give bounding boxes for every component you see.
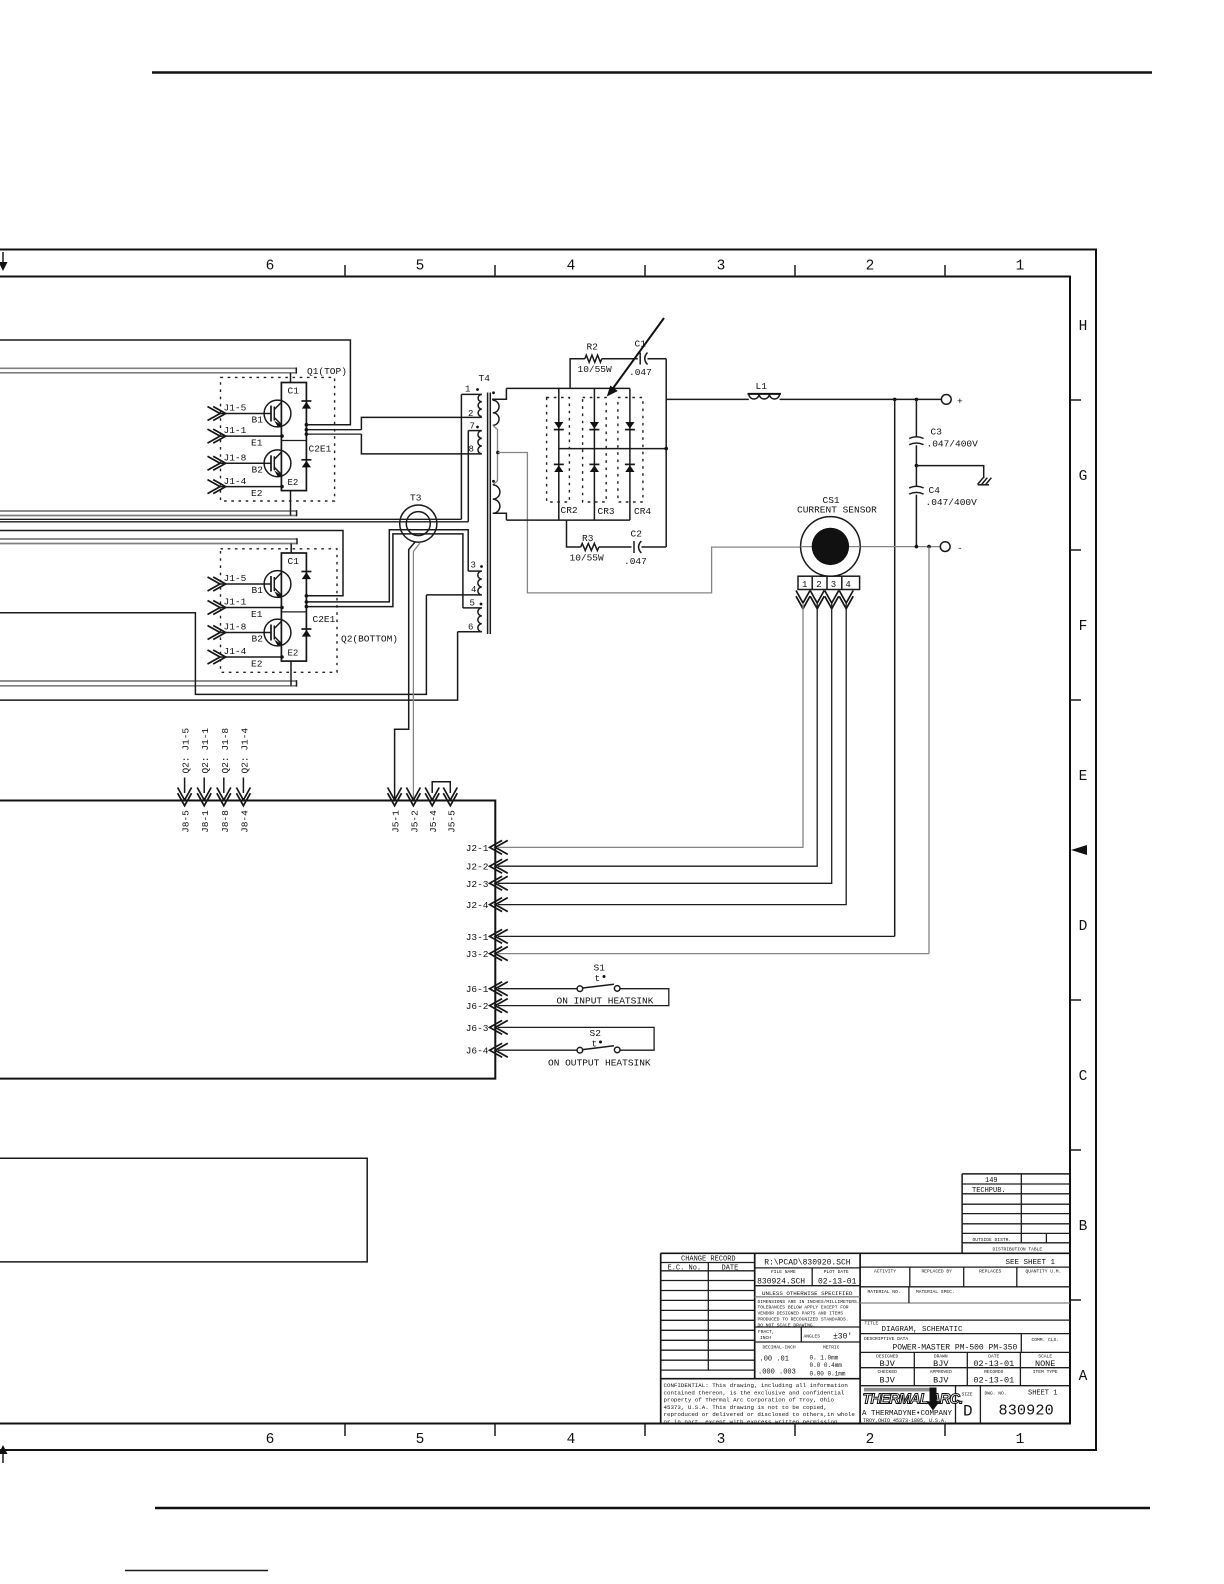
svg-text:6: 6 (266, 259, 275, 275)
wire T3 secondary lead to J5-2 (413, 543, 420, 800)
junction + rail C3 tap (915, 398, 919, 402)
wire T3 secondary lead to J5-1 (395, 542, 416, 800)
svg-text:E.C. No.: E.C. No. (668, 1264, 702, 1272)
diode IGBT module Q2 upper anti-parallel (301, 571, 311, 573)
footer short line (125, 1570, 268, 1572)
connector pin J8-4 with net label Q2: J1-4 (236, 728, 250, 833)
junction Q1 E2 (280, 485, 284, 489)
designed row (860, 1352, 1070, 1385)
svg-text:DATE: DATE (722, 1264, 739, 1272)
svg-text:5: 5 (470, 599, 475, 609)
wire secondary center tap to negative rail (498, 453, 801, 593)
auxiliary block outline (cut at left) (0, 1158, 367, 1262)
svg-text:SEE SHEET 1: SEE SHEET 1 (1006, 1259, 1056, 1267)
svg-text:J5-5: J5-5 (446, 810, 457, 833)
svg-text:02-13-01: 02-13-01 (818, 1277, 857, 1286)
connector pin J6-2 (466, 999, 508, 1013)
svg-text:C2E1: C2E1 (309, 444, 332, 455)
svg-text:4: 4 (471, 585, 476, 595)
svg-text:B2: B2 (252, 634, 264, 645)
junction C4 negative rail (915, 545, 919, 549)
connector pin J2-2 (466, 859, 508, 873)
diode module CR3 (583, 388, 607, 520)
svg-text:OUTSIDE DISTR.: OUTSIDE DISTR. (973, 1237, 1012, 1243)
svg-text:5: 5 (416, 259, 425, 275)
svg-text:reproduced or delivered or dis: reproduced or delivered or disclosed to … (664, 1411, 856, 1418)
junction Q1 C2E1 exits (305, 423, 309, 436)
svg-text:MATERIAL SPEC.: MATERIAL SPEC. (916, 1289, 955, 1295)
svg-text:ACTIVITY: ACTIVITY (874, 1269, 896, 1275)
svg-text:METRIC: METRIC (823, 1345, 840, 1351)
svg-text:0.00 0.1mm: 0.00 0.1mm (810, 1371, 846, 1378)
svg-text:C1: C1 (288, 386, 300, 397)
svg-text:BJV: BJV (933, 1359, 949, 1369)
svg-text:CURRENT SENSOR: CURRENT SENSOR (797, 505, 877, 516)
svg-text:J6-1: J6-1 (466, 984, 489, 995)
svg-text:±30′: ±30′ (833, 1333, 852, 1342)
svg-text:J1-4: J1-4 (224, 646, 247, 657)
T4 secondary upper (493, 388, 507, 452)
svg-text:DIAGRAM, SCHEMATIC: DIAGRAM, SCHEMATIC (882, 1326, 964, 1334)
svg-text:2: 2 (816, 580, 821, 590)
junction J3-2 tap (927, 545, 931, 549)
wire J3-2 sense (928, 547, 930, 954)
transistor IGBT module Q2 upper half (264, 571, 291, 598)
junction T4 secondary center tap (496, 451, 500, 455)
CS1 terminal strip 1 2 3 4 (798, 576, 860, 590)
svg-text:QUANTITY U.M.: QUANTITY U.M. (1025, 1269, 1061, 1275)
svg-text:or in part, except with expres: or in part, except with express written … (664, 1418, 841, 1425)
wire Q1 C1 bus pair from left edge (0, 368, 296, 374)
svg-text:Q2: J1-5: Q2: J1-5 (181, 728, 192, 774)
svg-text:Q1(TOP): Q1(TOP) (307, 366, 347, 377)
IGBT module Q1 module body (281, 383, 306, 491)
svg-text:TOLERANCES BELOW APPLY EXCEPT: TOLERANCES BELOW APPLY EXCEPT FOR (758, 1305, 849, 1311)
svg-text:REPLACES: REPLACES (979, 1269, 1001, 1275)
current transformer T3 (400, 505, 437, 542)
IGBT module Q2 module body (281, 553, 306, 661)
wire Q2 C1 stub (290, 544, 292, 554)
page edge arrow bottom-left (0, 1445, 8, 1463)
transistor IGBT module Q1 upper half (264, 400, 291, 427)
drawing outer border (0, 250, 1096, 1451)
transformer T4 core (488, 393, 491, 635)
wire Q1 C2E1 feedback to left edge (0, 340, 350, 425)
wire CS1 pin1 to J2-1 (498, 603, 803, 847)
svg-text:J6-2: J6-2 (466, 1001, 489, 1012)
junction Q1 E1 (280, 434, 284, 438)
ground symbol (978, 478, 992, 485)
svg-text:J8-5: J8-5 (181, 810, 192, 833)
svg-text:ANGLES: ANGLES (804, 1333, 821, 1339)
wire T4 pin1 down to T3 (460, 394, 462, 519)
svg-text:FILE NAME: FILE NAME (771, 1269, 796, 1275)
svg-text:E2: E2 (251, 659, 263, 670)
T4 winding 3-4 (426, 561, 481, 596)
svg-text:J2-3: J2-3 (466, 879, 489, 890)
svg-text:E: E (1079, 769, 1088, 785)
svg-text:CR3: CR3 (598, 506, 615, 517)
svg-text:RECORDS: RECORDS (984, 1369, 1004, 1375)
svg-text:SIZE: SIZE (962, 1391, 973, 1397)
svg-text:3: 3 (717, 1432, 726, 1448)
diode module CR2 (547, 388, 570, 520)
svg-text:830920: 830920 (999, 1402, 1054, 1420)
bus bar Q1 to T4 windings 1-2/7-8 (361, 417, 481, 454)
svg-text:C3: C3 (931, 427, 943, 438)
svg-text:10/55W: 10/55W (570, 553, 605, 564)
svg-text:02-13-01: 02-13-01 (973, 1376, 1014, 1386)
connector pin J2-1 (466, 840, 508, 854)
svg-text:149: 149 (985, 1177, 998, 1185)
svg-text:2: 2 (866, 1432, 875, 1448)
border zone letters right (1079, 319, 1088, 1385)
capacitor C1 (640, 353, 647, 365)
material row (860, 1287, 1070, 1303)
connector pin J6-3 (466, 1020, 508, 1034)
svg-text:D: D (1079, 919, 1088, 935)
svg-text:DESCRIPTIVE DATA: DESCRIPTIVE DATA (864, 1336, 908, 1342)
wire S1 loop back to J6-2 (498, 989, 669, 1006)
svg-text:C: C (1079, 1069, 1088, 1085)
wire rectifier output right riser (665, 359, 667, 547)
resistor R2 (585, 355, 602, 362)
junction Q2 E1 (280, 606, 284, 610)
connector pin J5-5 (443, 788, 457, 834)
svg-text:.047: .047 (624, 556, 647, 567)
svg-text:J5-1: J5-1 (391, 810, 402, 833)
diode IGBT module Q1 lower anti-parallel (301, 459, 311, 461)
wire jumper J5-4 to J5-5 (432, 782, 450, 793)
svg-text:COMM. CLS.: COMM. CLS. (1032, 1337, 1060, 1343)
svg-text:E1: E1 (251, 609, 263, 620)
size cell (962, 1391, 973, 1420)
connector pin J1-5 (Q2) (208, 573, 265, 591)
connector pin J1-1 (Q2) (208, 597, 282, 615)
border zone ticks top (345, 265, 945, 277)
svg-text:MATERIAL NO.: MATERIAL NO. (868, 1289, 901, 1295)
wire S2 to J6-4 (498, 1049, 577, 1051)
svg-text:1: 1 (465, 385, 470, 395)
svg-text:4: 4 (567, 1432, 576, 1448)
svg-text:+: + (957, 396, 963, 407)
wire J3-1 sense (894, 399, 896, 936)
svg-text:3: 3 (471, 561, 476, 571)
svg-text:D: D (963, 1403, 973, 1421)
connector pin J1-5 (Q1) (208, 403, 265, 421)
svg-text:CONFIDENTIAL: This drawing, in: CONFIDENTIAL: This drawing, including al… (664, 1382, 848, 1389)
svg-text:J2-4: J2-4 (466, 900, 489, 911)
junction Q2 E2 (280, 655, 284, 659)
T4 winding 5-6 (458, 599, 482, 633)
connector pin J8-1 with net label Q2: J1-1 (197, 728, 211, 833)
change record table (661, 1256, 860, 1379)
PCB board outline (0, 801, 495, 1079)
capacitor C4 (909, 466, 923, 547)
svg-text:C4: C4 (929, 485, 941, 496)
svg-text:DWG. NO.: DWG. NO. (985, 1391, 1007, 1397)
svg-text:CHANGE RECORD: CHANGE RECORD (681, 1256, 736, 1264)
svg-text:1: 1 (802, 580, 807, 590)
wire T4 pin1 through T3 to left edge (0, 518, 461, 520)
T4 winding 1-2 (461, 385, 481, 420)
file name cell (755, 1259, 860, 1287)
wire left edge to T4 terminal 6 (0, 632, 458, 700)
svg-text:J8-1: J8-1 (200, 810, 211, 833)
svg-text:-: - (957, 543, 963, 554)
connector pin J8-8 with net label Q2: J1-8 (217, 728, 231, 833)
svg-text:.047/400V: .047/400V (927, 439, 979, 450)
wire left edge to T4 terminal 4 (0, 595, 426, 695)
diode IGBT module Q1 upper anti-parallel (301, 400, 311, 402)
svg-text:J1-5: J1-5 (224, 403, 247, 414)
confidential note (664, 1382, 856, 1425)
connector pin J5-2 (406, 788, 420, 834)
svg-text:0.0 0.4mm: 0.0 0.4mm (810, 1362, 843, 1369)
svg-text:C2: C2 (631, 529, 643, 540)
svg-text:C1: C1 (288, 556, 300, 567)
svg-text:B2: B2 (252, 465, 264, 476)
svg-text:8: 8 (469, 445, 474, 455)
connector pin J1-4 (Q1) (208, 476, 282, 494)
svg-text:BJV: BJV (880, 1376, 896, 1386)
svg-text:L1: L1 (756, 381, 768, 392)
svg-text:3: 3 (831, 580, 836, 590)
svg-text:DECIMAL-INCH: DECIMAL-INCH (763, 1345, 796, 1351)
svg-text:J5-4: J5-4 (428, 810, 439, 833)
wire Q1 E2 stub (290, 491, 292, 516)
wire negative rail to terminal (860, 546, 941, 548)
svg-text:DIMENSIONS ARE IN INCHES/MILLI: DIMENSIONS ARE IN INCHES/MILLIMETERS. (758, 1299, 860, 1305)
svg-text:E2: E2 (288, 478, 299, 488)
svg-text:FRACT,: FRACT, (758, 1329, 775, 1335)
svg-text:A: A (1079, 1369, 1088, 1385)
svg-text:B1: B1 (252, 585, 264, 596)
svg-text:S2: S2 (590, 1028, 602, 1039)
svg-text:DISTRIBUTION TABLE: DISTRIBUTION TABLE (993, 1246, 1043, 1252)
wire CS1 pin2 to J2-2 (498, 603, 817, 866)
svg-text:J1-4: J1-4 (224, 476, 247, 487)
svg-text:0. 1.0mm: 0. 1.0mm (810, 1354, 839, 1361)
svg-text:Q2: J1-1: Q2: J1-1 (200, 728, 211, 774)
wire positive rail (666, 398, 941, 400)
wire T4 pin7 down to T3 (467, 431, 469, 522)
thermostat S1 (577, 963, 620, 992)
svg-text:J1-5: J1-5 (224, 573, 247, 584)
svg-text:5: 5 (416, 1432, 425, 1448)
annotation arrow (607, 318, 664, 397)
connector pin J2-3 (466, 876, 508, 890)
connector pin J2-4 (466, 898, 508, 912)
wire Q2 C2E1 feedback loop to left edge (0, 531, 343, 596)
svg-text:.00 .01: .00 .01 (760, 1356, 789, 1364)
svg-text:T3: T3 (410, 493, 422, 504)
connector pin J3-2 (466, 947, 508, 961)
svg-text:CR4: CR4 (634, 506, 651, 517)
svg-text:E1: E1 (251, 438, 263, 449)
wire Q1 C1 stub (290, 373, 292, 383)
svg-text:ITEM TYPE: ITEM TYPE (1033, 1369, 1058, 1375)
border revision arrow right (1071, 845, 1087, 855)
svg-text:Q2(BOTTOM): Q2(BOTTOM) (341, 634, 398, 645)
thermostat S2 (577, 1028, 620, 1053)
wire CS1 pin3 to J2-3 (498, 603, 832, 883)
svg-text:B: B (1079, 1219, 1088, 1235)
svg-text:BJV: BJV (933, 1376, 949, 1386)
connector pin J5-1 (388, 788, 402, 834)
wire J3-1 horizontal (498, 935, 895, 937)
drawing inner border (0, 277, 1070, 1424)
svg-text:POWER-MASTER PM-500 PM-350: POWER-MASTER PM-500 PM-350 (893, 1344, 1018, 1353)
wire CS1 pin4 to J2-4 (498, 603, 846, 905)
T4 secondary lower (493, 453, 507, 521)
svg-text:APPROVED: APPROVED (930, 1369, 952, 1375)
terminal + output (941, 395, 963, 408)
svg-text:2: 2 (468, 409, 473, 419)
svg-text:ON OUTPUT HEATSINK: ON OUTPUT HEATSINK (548, 1058, 651, 1069)
svg-text:J8-4: J8-4 (239, 810, 250, 833)
title block frame (661, 1253, 1070, 1423)
wire ground branch (916, 466, 983, 479)
svg-text:VENDOR DESIGNED PARTS AND ITEM: VENDOR DESIGNED PARTS AND ITEMS (758, 1311, 844, 1317)
svg-text:J3-2: J3-2 (466, 949, 489, 960)
svg-text:INCH: INCH (760, 1335, 771, 1341)
wire J3-2 horizontal (498, 953, 929, 955)
connector pin J8-5 with net label Q2: J1-5 (178, 728, 192, 833)
svg-text:45373, U.S.A. This drawing is: 45373, U.S.A. This drawing is not to be … (664, 1404, 828, 1411)
svg-text:6: 6 (266, 1432, 275, 1448)
svg-text:1: 1 (1016, 1432, 1025, 1448)
wire T4 pin7 through T3 to left edge (0, 521, 468, 523)
svg-text:BJV: BJV (880, 1359, 896, 1369)
checked row (860, 1369, 1070, 1386)
T4 winding 7-8 (468, 422, 482, 455)
svg-text:property of Thermal Arc Corpor: property of Thermal Arc Corporation of T… (664, 1397, 835, 1404)
distribution table (962, 1174, 1070, 1253)
svg-text:G: G (1079, 469, 1088, 485)
svg-text:6: 6 (468, 623, 473, 633)
current sensor CS1 (801, 517, 861, 577)
IGBT module Q2 dashed outline (221, 549, 338, 673)
dwg no cell (985, 1390, 1058, 1420)
svg-text:J8-8: J8-8 (220, 810, 231, 833)
wire rectifier AC top bus (506, 387, 630, 389)
svg-text:Q2: J1-8: Q2: J1-8 (220, 728, 231, 774)
junction C3/C4 ground tap (915, 464, 919, 468)
svg-text:T4: T4 (479, 373, 491, 384)
connector pin J1-1 (Q1) (208, 425, 282, 443)
svg-text:THERMAL ARC.: THERMAL ARC. (863, 1392, 963, 1408)
page footer rule (155, 1507, 1150, 1510)
CS1 pin connector arrows (796, 591, 853, 609)
svg-text:J1-8: J1-8 (224, 622, 247, 633)
connector pin J5-4 (425, 788, 439, 834)
page edge arrow top-left (0, 252, 8, 271)
connector pin J1-8 (Q2) (208, 622, 265, 640)
wire Q1 output pair to T4 (306, 430, 361, 434)
svg-text:SHEET 1: SHEET 1 (1028, 1390, 1057, 1398)
descriptive data row (860, 1334, 1070, 1353)
svg-text:F: F (1079, 619, 1088, 635)
junction + rail J3-1 tap (893, 398, 897, 402)
title row (860, 1320, 1070, 1334)
transistor IGBT module Q1 lower half (264, 450, 291, 477)
snubber R2 C1 wire (570, 359, 666, 388)
wire Q2 E2 bus pair from left edge (0, 680, 297, 686)
wire rectifier AC bottom bus (506, 519, 630, 521)
border zone numbers bottom (266, 1432, 1025, 1448)
svg-text:C2E1: C2E1 (313, 614, 336, 625)
svg-text:J6-4: J6-4 (466, 1046, 489, 1057)
IGBT module Q1 dashed outline (221, 377, 335, 501)
svg-text:4: 4 (567, 259, 576, 275)
svg-text:J1-8: J1-8 (224, 453, 247, 464)
capacitor C3 (909, 399, 923, 465)
wire rectifier DC mid bus (559, 448, 666, 450)
snubber R3 C2 wire (567, 520, 667, 547)
svg-text:J1-1: J1-1 (224, 425, 247, 436)
svg-text:J2-1: J2-1 (466, 843, 489, 854)
svg-text:10/55W: 10/55W (578, 364, 613, 375)
tolerance table (755, 1327, 860, 1378)
see sheet 1 row (860, 1259, 1070, 1267)
svg-text:E2: E2 (251, 488, 263, 499)
svg-text:t: t (595, 973, 601, 984)
svg-text:TROY,OHIO 45373-1805, U.S.A.: TROY,OHIO 45373-1805, U.S.A. (863, 1418, 947, 1424)
svg-text:J1-1: J1-1 (224, 597, 247, 608)
diode module CR4 (618, 388, 643, 520)
svg-text:02-13-01: 02-13-01 (973, 1359, 1014, 1369)
svg-text:UNLESS OTHERWISE SPECIFIED: UNLESS OTHERWISE SPECIFIED (762, 1290, 853, 1297)
svg-text:1: 1 (1016, 259, 1025, 275)
svg-text:J5-2: J5-2 (409, 810, 420, 833)
wire Q1 E2 bus pair from left edge (0, 510, 297, 516)
svg-text:J6-3: J6-3 (466, 1023, 489, 1034)
svg-text:PRODUCED TO RECOGNIZED STANDAR: PRODUCED TO RECOGNIZED STANDARDS. (758, 1317, 849, 1323)
tolerance note block (755, 1290, 860, 1328)
svg-text:PLOT DATE: PLOT DATE (824, 1269, 849, 1275)
wire Q2 C1 bus pair from left edge (0, 538, 297, 544)
T4 polarity dots (476, 388, 495, 605)
svg-text:t: t (592, 1039, 598, 1050)
connector pin J1-8 (Q1) (208, 453, 265, 471)
border zone ticks bottom (345, 1424, 945, 1437)
resistor R3 (581, 543, 599, 550)
terminal - output (940, 542, 962, 554)
activity row (860, 1267, 1070, 1287)
svg-text:2: 2 (866, 259, 875, 275)
svg-text:4: 4 (845, 580, 850, 590)
wire J6-1 to S1 (498, 988, 577, 990)
svg-text:830924.SCH: 830924.SCH (757, 1277, 805, 1286)
svg-text:J2-2: J2-2 (466, 862, 489, 873)
svg-text:S1: S1 (594, 963, 606, 974)
wire J6-3 loop (498, 1027, 654, 1050)
IGBT module Q2 internal E1-C2 link (281, 611, 306, 613)
IGBT module Q1 internal E1-C2 link (281, 440, 306, 442)
svg-text:CHECKED: CHECKED (878, 1369, 898, 1375)
svg-text:contained thereon, is the excl: contained thereon, is the exclusive and … (664, 1389, 845, 1396)
capacitor C2 (634, 541, 641, 553)
svg-text:H: H (1079, 319, 1088, 335)
svg-text:E2: E2 (288, 649, 299, 659)
svg-text:3: 3 (717, 259, 726, 275)
svg-text:ON INPUT HEATSINK: ON INPUT HEATSINK (557, 996, 654, 1007)
svg-text:J3-1: J3-1 (466, 932, 489, 943)
inductor L1 (748, 394, 782, 399)
junction Q2 C2E1 exits (305, 594, 309, 608)
svg-text:A THERMADYNE•COMPANY: A THERMADYNE•COMPANY (862, 1410, 953, 1418)
